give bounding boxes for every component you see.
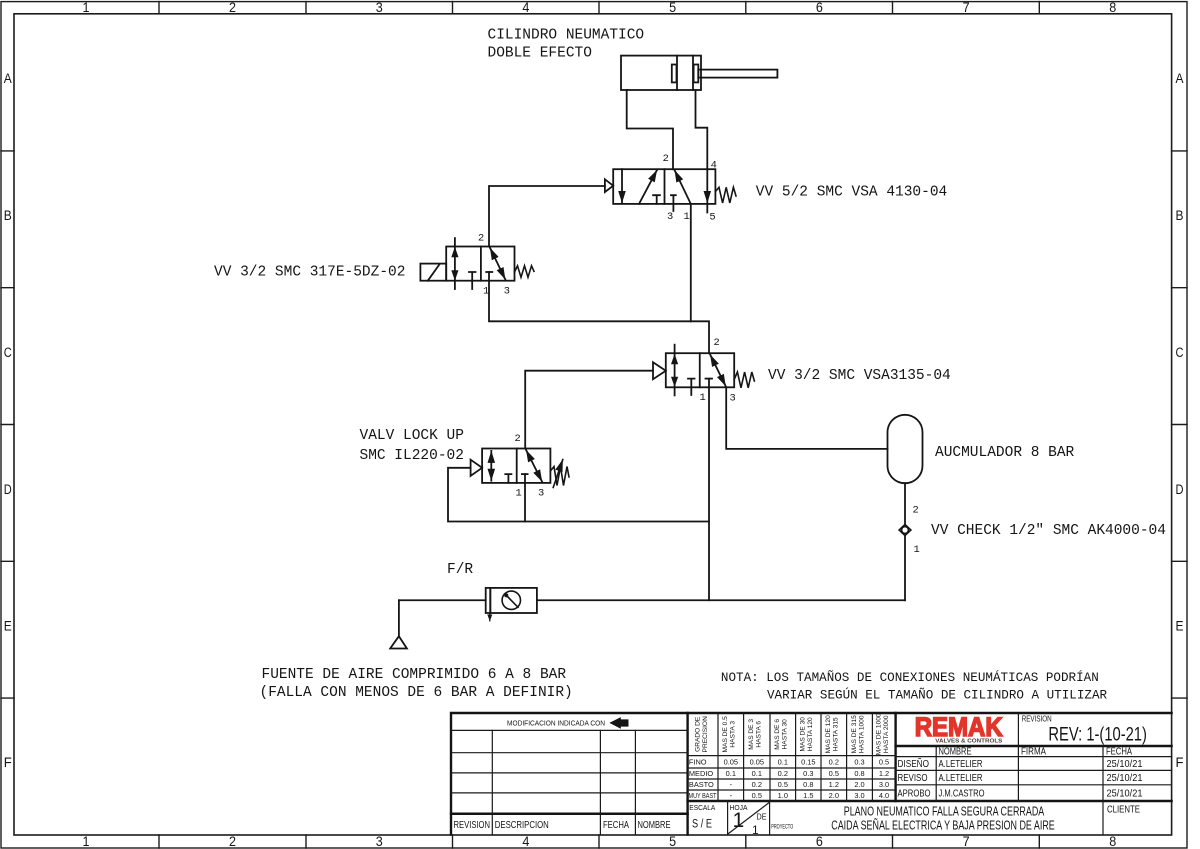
svg-text:25/10/21: 25/10/21 (1107, 787, 1143, 799)
svg-text:1.2: 1.2 (879, 769, 889, 778)
svg-text:E: E (4, 619, 12, 634)
svg-text:FECHA: FECHA (603, 819, 629, 831)
svg-text:FUENTE DE AIRE COMPRIMIDO 6 A: FUENTE DE AIRE COMPRIMIDO 6 A 8 BAR (262, 667, 567, 683)
cylinder CILINDRO NEUMATICO body (621, 56, 701, 90)
svg-text:1: 1 (83, 0, 90, 15)
svg-text:0.05: 0.05 (724, 757, 738, 766)
svg-text:(FALLA CON MENOS DE 6 BAR A DE: (FALLA CON MENOS DE 6 BAR A DEFINIR) (260, 685, 573, 701)
wire: check valve to supply line (904, 536, 906, 601)
svg-text:REVISO: REVISO (898, 772, 928, 784)
317E return spring (515, 266, 535, 278)
svg-text:REVISION: REVISION (454, 819, 491, 831)
svg-text:1: 1 (700, 392, 706, 404)
wire: accumulator to check valve (904, 483, 906, 524)
svg-text:1: 1 (752, 823, 759, 837)
TITLE BLOCK (451, 713, 1172, 835)
escala / hoja cell borders (728, 801, 770, 835)
svg-text:2: 2 (515, 433, 521, 445)
svg-text:F: F (1176, 755, 1184, 770)
svg-text:MAS DE 0.5: MAS DE 0.5 (722, 716, 729, 753)
wire: lock-up port 2 riser to VSA3135 pilot (525, 371, 653, 449)
wire: 317E port 1 to VSA3135 port 2 (489, 272, 709, 353)
svg-text:5: 5 (669, 834, 676, 849)
svg-text:6: 6 (816, 834, 823, 849)
thick line above revision row (451, 813, 688, 815)
317E right box exhaust arrow 2-3 (490, 248, 505, 280)
supply line right of F/R (537, 599, 905, 601)
svg-text:7: 7 (963, 834, 970, 849)
svg-text:F: F (4, 755, 12, 770)
svg-text:VV 3/2 SMC 317E-5DZ-02: VV 3/2 SMC 317E-5DZ-02 (214, 264, 405, 280)
svg-text:0.1: 0.1 (778, 757, 788, 766)
svg-text:0.2: 0.2 (752, 780, 762, 789)
svg-text:MAS DE 6: MAS DE 6 (774, 719, 781, 750)
svg-text:4: 4 (522, 834, 529, 849)
lock-up left box flow arrow 1-2 (490, 451, 492, 481)
svg-text:NOMBRE: NOMBRE (638, 819, 671, 831)
317E left box flow arrow 1-2 (451, 238, 458, 289)
svg-text:SMC IL220-02: SMC IL220-02 (360, 448, 464, 464)
svg-text:0.2: 0.2 (778, 769, 788, 778)
section divider left/middle (686, 713, 688, 835)
svg-text:0.05: 0.05 (750, 757, 764, 766)
title block outer border (451, 713, 1172, 835)
svg-text:1: 1 (914, 544, 920, 556)
precision table columns (718, 713, 872, 801)
svg-text:AUCMULADOR 8 BAR: AUCMULADOR 8 BAR (935, 445, 1075, 461)
svg-text:DOBLE EFECTO: DOBLE EFECTO (488, 46, 592, 62)
svg-text:2: 2 (229, 0, 236, 15)
valve 3/2 317E body (446, 247, 514, 281)
svg-text:J.M.CASTRO: J.M.CASTRO (939, 787, 985, 799)
svg-text:HASTA 2000: HASTA 2000 (883, 715, 890, 753)
svg-text:3.0: 3.0 (879, 780, 889, 789)
VSA3135 return spring (734, 372, 754, 388)
svg-text:8: 8 (1109, 834, 1116, 849)
svg-text:DESCRIPCION: DESCRIPCION (495, 819, 549, 831)
svg-text:0.2: 0.2 (829, 757, 839, 766)
svg-text:FINO: FINO (689, 757, 707, 766)
5/2 right box flow arrow 1-2 (675, 170, 691, 204)
SCHEMATIC TEXT (214, 27, 1166, 701)
svg-text:0.5: 0.5 (752, 791, 762, 800)
svg-text:VALVES & CONTROLS: VALVES & CONTROLS (935, 739, 1002, 745)
VSA3135 left box flow arrow 1-2 (671, 345, 678, 396)
valve lock-up IL220 body (482, 449, 550, 483)
svg-text:2.0: 2.0 (854, 780, 864, 789)
svg-text:2: 2 (913, 505, 919, 517)
revision table rows (451, 730, 688, 793)
svg-text:3.0: 3.0 (854, 791, 864, 800)
svg-text:PRECISION: PRECISION (702, 716, 709, 753)
lock-up pilot triangle (471, 460, 483, 476)
svg-text:1: 1 (733, 809, 745, 832)
svg-text:A: A (1176, 71, 1184, 86)
lock-up right box blocked port 1 T (522, 473, 528, 475)
svg-text:A.LETELIER: A.LETELIER (939, 758, 983, 770)
F/R drain arrow (489, 613, 491, 621)
svg-text:PROYECTO: PROYECTO (771, 823, 793, 830)
svg-text:REV: 1-(10-21): REV: 1-(10-21) (1048, 724, 1147, 746)
svg-text:2.0: 2.0 (829, 791, 839, 800)
svg-text:REMAK: REMAK (915, 712, 1003, 742)
svg-text:VV CHECK 1/2" SMC AK4000-04: VV CHECK 1/2" SMC AK4000-04 (931, 523, 1166, 539)
5/2 right box exhaust arrow 4-5 (706, 169, 708, 212)
op 5/2 valve U1 body VSA 4130-04 (613, 169, 715, 204)
svg-text:VV 3/2 SMC VSA3135-04: VV 3/2 SMC VSA3135-04 (768, 368, 951, 384)
svg-text:4.0: 4.0 (879, 791, 889, 800)
svg-text:0.3: 0.3 (854, 757, 864, 766)
svg-text:0.1: 0.1 (726, 769, 736, 778)
thick line above escala/title row (688, 800, 1172, 802)
svg-text:FIRMA: FIRMA (1021, 746, 1046, 758)
svg-text:HASTA 120: HASTA 120 (807, 717, 814, 751)
svg-text:0.8: 0.8 (854, 769, 864, 778)
svg-text:0.15: 0.15 (801, 757, 815, 766)
svg-text:0.5: 0.5 (778, 780, 788, 789)
svg-text:B: B (1176, 208, 1184, 223)
section divider middle/right (894, 713, 896, 801)
317E solenoid (420, 264, 446, 281)
wire: lock-up port 1 drop (524, 474, 526, 521)
svg-text:1: 1 (483, 285, 489, 297)
svg-text:7: 7 (963, 0, 970, 15)
svg-text:1: 1 (516, 488, 522, 500)
svg-text:MODIFICACION INDICADA CON: MODIFICACION INDICADA CON (507, 718, 605, 727)
svg-text:HASTA 6: HASTA 6 (756, 721, 763, 748)
5/2 left box blocked port T (653, 195, 660, 204)
svg-text:5: 5 (669, 0, 676, 15)
wire: VSA3135 port 3 to accumulator (726, 387, 887, 449)
wire: 5/2 port 1 drop (690, 204, 692, 321)
svg-text:2: 2 (663, 153, 669, 165)
accumulator 8 bar (888, 415, 923, 483)
right section columns (936, 746, 1103, 835)
zone labels left A-F (4, 71, 12, 770)
svg-text:C: C (1176, 345, 1184, 360)
svg-text:D: D (4, 482, 12, 497)
hoja diagonal (729, 803, 770, 834)
VSA3135 pilot triangle (653, 362, 666, 379)
svg-text:BASTO: BASTO (689, 780, 714, 789)
svg-text:25/10/21: 25/10/21 (1107, 772, 1143, 784)
svg-text:MAS DE 120: MAS DE 120 (825, 715, 832, 753)
svg-text:0.5: 0.5 (829, 769, 839, 778)
svg-text:S / E: S / E (692, 819, 712, 831)
svg-text:3: 3 (376, 834, 383, 849)
wire: air source drop (398, 600, 400, 636)
svg-text:-: - (730, 791, 733, 800)
right zone ticks (1172, 151, 1187, 698)
svg-text:CLIENTE: CLIENTE (1107, 805, 1140, 816)
svg-text:CILINDRO NEUMATICO: CILINDRO NEUMATICO (488, 27, 645, 43)
svg-text:1.2: 1.2 (829, 780, 839, 789)
svg-text:6: 6 (816, 0, 823, 15)
svg-text:NOMBRE: NOMBRE (939, 746, 972, 758)
svg-text:HASTA 30: HASTA 30 (782, 719, 789, 750)
modificacion arrow symbol (609, 717, 628, 729)
svg-text:5: 5 (709, 212, 715, 224)
F/R filter regulator (486, 588, 537, 613)
svg-text:4: 4 (711, 159, 717, 171)
valve 3/2 VSA3135 body (666, 353, 734, 387)
left zone ticks (1, 151, 14, 698)
svg-text:1: 1 (83, 834, 90, 849)
svg-text:2: 2 (478, 233, 484, 245)
svg-text:2: 2 (229, 834, 236, 849)
wire: VSA3135 port 1 drop to supply line (708, 379, 710, 601)
5/2 left box flow arrow 1-4 (639, 170, 657, 204)
svg-text:REVISION: REVISION (1022, 714, 1052, 724)
VSA3135 left box blocked T (688, 379, 695, 395)
check valve AK4000 (899, 525, 911, 536)
svg-text:DISEÑO: DISEÑO (898, 757, 930, 770)
svg-text:E: E (1176, 619, 1184, 634)
thick line below logo row (896, 745, 1172, 747)
svg-text:GRADO DE: GRADO DE (695, 716, 702, 752)
svg-text:VALV LOCK UP: VALV LOCK UP (360, 428, 464, 444)
bottom zone ticks (159, 835, 1039, 848)
precision table rows (688, 756, 896, 790)
svg-text:8: 8 (1109, 0, 1116, 15)
317E right box blocked port 1 T (486, 271, 492, 273)
svg-text:25/10/21: 25/10/21 (1107, 758, 1143, 770)
5/2 return spring (715, 187, 736, 203)
air source triangle (390, 636, 407, 648)
revision cell divider (1017, 713, 1019, 746)
cylinder cushion seals (672, 65, 699, 83)
wire: feedback loop from supply riser to lock-up pilot (448, 468, 709, 522)
svg-text:C: C (4, 345, 12, 360)
lock-up adjustable spring (550, 460, 569, 488)
revision / approvals texts (898, 714, 1147, 816)
svg-text:MUY BAST: MUY BAST (689, 791, 717, 800)
5/2 pilot triangle (605, 179, 613, 192)
svg-text:0.3: 0.3 (803, 769, 813, 778)
svg-text:MAS DE 315: MAS DE 315 (851, 715, 858, 753)
svg-text:A.LETELIER: A.LETELIER (939, 772, 983, 784)
svg-text:0.8: 0.8 (803, 780, 813, 789)
svg-text:HASTA 1000: HASTA 1000 (858, 715, 865, 753)
5/2 right box blocked port 3 T (671, 195, 676, 211)
zone labels bottom 1-8 (83, 834, 1117, 849)
svg-text:CAIDA SEÑAL ELECTRICA Y BAJA P: CAIDA SEÑAL ELECTRICA Y BAJA PRESION DE … (831, 819, 1055, 833)
svg-text:3: 3 (376, 0, 383, 15)
lock-up right box flow arrow 2-3 (526, 450, 542, 482)
svg-text:0.5: 0.5 (879, 757, 889, 766)
escala / hoja / proyecto / title texts (689, 803, 1054, 837)
svg-text:3: 3 (667, 211, 673, 223)
svg-text:NOTA: LOS TAMAÑOS DE CONEXIONE: NOTA: LOS TAMAÑOS DE CONEXIONES NEUMÁTIC… (721, 670, 1099, 685)
svg-text:HASTA 3: HASTA 3 (730, 721, 737, 748)
VSA3135 right box flow arrow 2-3 (710, 355, 726, 387)
svg-text:VARIAR SEGÚN EL TAMAÑO DE CILI: VARIAR SEGÚN EL TAMAÑO DE CILINDRO A UTI… (767, 688, 1108, 703)
zone labels right A-F (1176, 71, 1184, 770)
svg-text:B: B (4, 208, 12, 223)
5/2 left box exhaust arrow 2-3 (621, 169, 623, 203)
svg-text:3: 3 (504, 285, 510, 297)
svg-text:0.1: 0.1 (752, 769, 762, 778)
svg-text:HASTA 315: HASTA 315 (833, 717, 840, 751)
svg-text:DE: DE (757, 812, 767, 822)
svg-text:-: - (730, 780, 733, 789)
wire: 317E port 2 riser and pilot line to 5/2 (489, 186, 605, 247)
svg-text:MAS DE 30: MAS DE 30 (800, 717, 807, 752)
317E left box blocked T (469, 272, 476, 289)
precision table data (689, 757, 717, 800)
top zone ticks (159, 2, 1039, 14)
lock-up left box blocked T (505, 474, 511, 483)
svg-text:1: 1 (684, 211, 690, 223)
svg-text:MAS DE 3: MAS DE 3 (748, 719, 755, 750)
svg-text:APROBO: APROBO (898, 787, 931, 799)
precision table rotated headers (695, 713, 890, 755)
svg-text:A: A (4, 71, 12, 86)
svg-text:3: 3 (730, 392, 736, 404)
svg-text:3: 3 (538, 488, 544, 500)
svg-text:2: 2 (714, 337, 720, 349)
REMAK logo (915, 712, 1003, 745)
zone labels top 1-8 (83, 0, 1117, 15)
cylinder rod (698, 70, 777, 78)
supply line left of F/R (399, 599, 486, 601)
svg-text:MAS DE 1000: MAS DE 1000 (875, 713, 882, 755)
svg-text:F/R: F/R (447, 562, 473, 578)
svg-text:4: 4 (522, 0, 529, 15)
svg-text:D: D (1176, 482, 1184, 497)
VSA3135 right box blocked port 1 T (706, 378, 713, 380)
right section rows (896, 757, 1172, 785)
svg-text:1.0: 1.0 (778, 791, 788, 800)
cylinder piston faces (677, 56, 693, 90)
svg-text:MEDIO: MEDIO (689, 769, 713, 778)
svg-text:FECHA: FECHA (1106, 746, 1132, 758)
wire: cylinder rod end to valve port 4 (696, 90, 708, 169)
revision table columns (492, 730, 635, 834)
svg-text:1.5: 1.5 (803, 791, 813, 800)
svg-text:VV 5/2 SMC VSA 4130-04: VV 5/2 SMC VSA 4130-04 (756, 185, 947, 201)
svg-text:ESCALA: ESCALA (689, 803, 716, 812)
svg-text:PLANO NEUMATICO FALLA SEGURA C: PLANO NEUMATICO FALLA SEGURA CERRADA (844, 805, 1045, 819)
wire: cylinder cap end to valve port 2 (627, 90, 673, 169)
